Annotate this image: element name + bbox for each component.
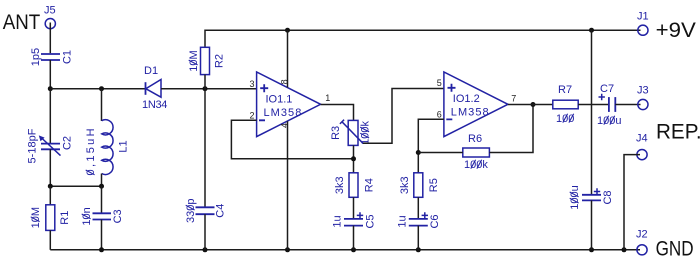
value 100k R6 bbox=[464, 159, 488, 171]
wire top rail bbox=[205, 30, 641, 47]
svg-text:L1: L1 bbox=[118, 140, 130, 152]
svg-text:GND: GND bbox=[656, 235, 694, 260]
wire to C3 bbox=[101, 186, 103, 213]
svg-text:R2: R2 bbox=[213, 54, 225, 68]
svg-text:C8: C8 bbox=[602, 190, 614, 204]
wire C5 to rail bbox=[353, 226, 355, 250]
svg-text:100k: 100k bbox=[464, 159, 488, 171]
wire pin8 bbox=[287, 30, 289, 87]
svg-text:1: 1 bbox=[325, 93, 330, 103]
capacitor C6 bbox=[409, 212, 428, 225]
svg-text:R4: R4 bbox=[364, 178, 376, 192]
wire pin7 output row bbox=[508, 104, 553, 106]
resistor R4 bbox=[349, 173, 358, 198]
wire D1 to pin3 bbox=[161, 88, 257, 90]
wire R6 right to output bbox=[489, 105, 533, 153]
value 0,15uH bbox=[85, 126, 97, 175]
value 100k R3 bbox=[360, 120, 372, 144]
junction rail C6 bbox=[416, 247, 421, 252]
wire C2 branch bbox=[49, 89, 51, 143]
svg-text:2: 2 bbox=[249, 111, 254, 121]
wire R4 to C5 bbox=[353, 197, 355, 219]
svg-text:5-18pF: 5-18pF bbox=[27, 128, 39, 163]
connector J3 bbox=[637, 85, 649, 110]
junction R6 output bbox=[531, 102, 536, 107]
inductor L1 bbox=[102, 120, 113, 175]
node A junction bbox=[48, 86, 53, 91]
wire R6 left stub bbox=[418, 152, 463, 154]
svg-text:3: 3 bbox=[249, 79, 254, 89]
junction rail C8 bbox=[589, 247, 594, 252]
svg-text:3k3: 3k3 bbox=[334, 176, 346, 194]
junction R6 left bbox=[416, 150, 421, 155]
wire R3 wiper to pin5 bbox=[363, 89, 444, 144]
capacitor C3 bbox=[93, 213, 112, 219]
wire pin2 feedback bbox=[231, 120, 353, 159]
wire L1 to node B bbox=[101, 174, 103, 187]
diode D1 bbox=[146, 80, 162, 98]
svg-text:J3: J3 bbox=[637, 85, 649, 97]
junction node B left bbox=[48, 184, 53, 189]
svg-text:REP.: REP. bbox=[656, 118, 700, 143]
svg-text:100u: 100u bbox=[569, 185, 581, 209]
junction R2 bottom bbox=[203, 86, 208, 91]
svg-text:100k: 100k bbox=[360, 120, 372, 144]
wire C3 to rail bbox=[101, 220, 103, 250]
wire C4 branch bbox=[204, 89, 206, 208]
junction R3 bottom bbox=[351, 156, 356, 161]
svg-text:C2: C2 bbox=[62, 136, 74, 150]
junction rail pin4 bbox=[285, 247, 290, 252]
svg-text:1u: 1u bbox=[332, 215, 344, 227]
value 330p bbox=[185, 198, 197, 222]
svg-text:+9V: +9V bbox=[656, 17, 697, 42]
junction rail C5 bbox=[351, 247, 356, 252]
svg-text:R6: R6 bbox=[468, 133, 482, 145]
value 100u C7 bbox=[597, 115, 621, 127]
svg-text:1p5: 1p5 bbox=[30, 48, 42, 66]
svg-text:LM358: LM358 bbox=[264, 107, 303, 119]
wire C7 to J3 bbox=[615, 104, 640, 106]
wire C1 to node A bbox=[49, 60, 51, 89]
svg-text:R3: R3 bbox=[330, 126, 342, 140]
svg-text:D1: D1 bbox=[144, 65, 158, 77]
svg-text:R1: R1 bbox=[59, 211, 71, 225]
wire R3 to R4 bbox=[353, 145, 355, 172]
junction rail C4 bbox=[203, 247, 208, 252]
wire C8 to rail bbox=[591, 200, 593, 249]
svg-text:J5: J5 bbox=[44, 5, 56, 17]
wire R1 to rail bbox=[49, 230, 51, 249]
junction top C8 column bbox=[589, 28, 594, 33]
capacitor C8 bbox=[582, 188, 601, 200]
svg-text:3k3: 3k3 bbox=[399, 176, 411, 194]
junction top pin8 bbox=[285, 28, 290, 33]
trimmer resistor R3 bbox=[340, 120, 363, 146]
wire to R1 bbox=[49, 186, 51, 205]
value 10n bbox=[81, 207, 93, 225]
svg-text:330p: 330p bbox=[185, 198, 197, 222]
op-amp U2 IO1.2 bbox=[444, 72, 508, 137]
op-amp U1 IO1.1 bbox=[257, 72, 321, 137]
svg-text:J1: J1 bbox=[637, 11, 649, 23]
wire L1 branch bbox=[101, 89, 103, 121]
wire R2 to main row bbox=[204, 75, 206, 89]
resistor R6 bbox=[463, 148, 490, 157]
capacitor C1 bbox=[41, 54, 60, 60]
connector J2 bbox=[636, 229, 648, 255]
wire J4 to rail bbox=[624, 155, 640, 250]
svg-text:C7: C7 bbox=[600, 83, 614, 95]
resistor R1 bbox=[46, 205, 55, 231]
svg-text:ANT: ANT bbox=[3, 9, 41, 34]
svg-text:IO1.2: IO1.2 bbox=[453, 93, 480, 105]
capacitor C4 bbox=[196, 207, 215, 214]
junction L1 top bbox=[99, 86, 104, 91]
value 10M R2 bbox=[188, 50, 200, 71]
wire pin6 feedback bbox=[418, 119, 444, 173]
wire pin1 output bbox=[321, 105, 354, 121]
svg-text:R5: R5 bbox=[428, 178, 440, 192]
svg-text:R7: R7 bbox=[558, 84, 572, 96]
svg-text:C4: C4 bbox=[214, 204, 226, 218]
trimmer capacitor C2 bbox=[39, 135, 61, 155]
wire C4 to rail bbox=[204, 214, 206, 250]
wire power column bbox=[591, 30, 593, 194]
wire C6 to rail bbox=[417, 226, 419, 250]
connector J5 bbox=[44, 5, 56, 29]
bottom rail GND wire bbox=[50, 249, 640, 251]
wire R5 to C6 bbox=[417, 197, 419, 219]
wire main row to D1 bbox=[50, 88, 145, 90]
junction node B right bbox=[99, 184, 104, 189]
resistor R2 bbox=[201, 47, 210, 74]
resistor R7 bbox=[553, 100, 578, 109]
wire J5 to C1 bbox=[49, 23, 51, 54]
svg-text:C5: C5 bbox=[365, 214, 377, 228]
svg-text:0,15uH: 0,15uH bbox=[85, 126, 97, 175]
value 10M bbox=[30, 207, 42, 228]
junction rail C3 bbox=[99, 247, 104, 252]
svg-text:100u: 100u bbox=[597, 115, 621, 127]
capacitor C7 bbox=[599, 94, 616, 112]
resistor R5 bbox=[414, 173, 423, 198]
svg-text:7: 7 bbox=[511, 94, 516, 104]
connector J4 bbox=[636, 133, 648, 160]
svg-text:J2: J2 bbox=[636, 229, 648, 241]
wire C2 to node B bbox=[49, 149, 51, 186]
svg-text:6: 6 bbox=[437, 110, 442, 120]
svg-text:LM358: LM358 bbox=[451, 107, 490, 119]
svg-text:J4: J4 bbox=[636, 133, 648, 145]
value 100 R7 bbox=[556, 113, 574, 125]
wire node B row bbox=[50, 185, 101, 187]
svg-text:1u: 1u bbox=[397, 215, 409, 227]
svg-text:IO1.1: IO1.1 bbox=[266, 94, 293, 106]
svg-text:5: 5 bbox=[437, 78, 442, 88]
value 100u C8 bbox=[569, 185, 581, 209]
wire pin4 bbox=[287, 121, 289, 250]
connector J1 bbox=[637, 11, 649, 36]
svg-text:C3: C3 bbox=[112, 209, 124, 223]
wire R7 to C7 bbox=[578, 104, 608, 106]
svg-text:C6: C6 bbox=[429, 214, 441, 228]
svg-text:C1: C1 bbox=[62, 50, 74, 64]
junction rail J4 bbox=[622, 247, 627, 252]
svg-text:1N34: 1N34 bbox=[142, 99, 167, 111]
capacitor C5 bbox=[344, 212, 363, 225]
